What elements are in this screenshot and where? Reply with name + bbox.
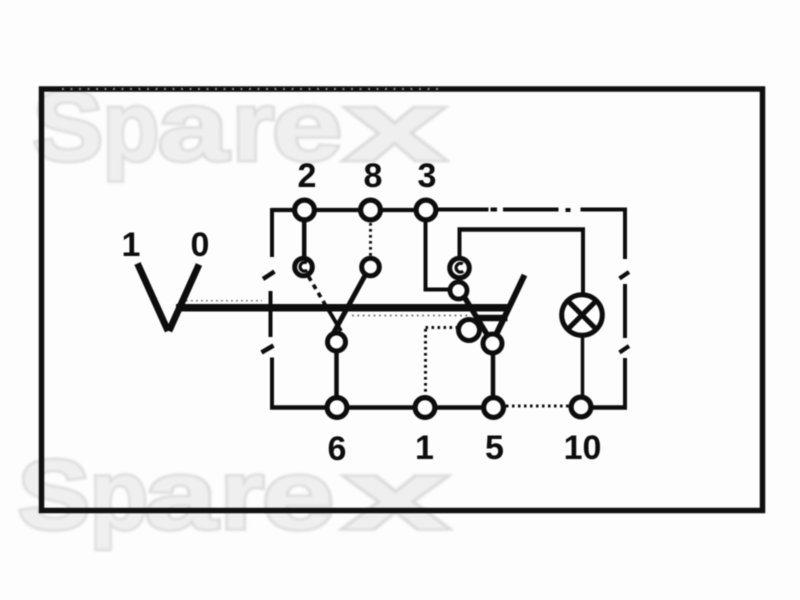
wire dotted L from terminal 1 to pivot [426, 326, 458, 329]
switch arm dashed lower solid part [327, 308, 341, 332]
terminal 1 [415, 398, 435, 418]
hook inside upper right contact [456, 263, 463, 272]
switch arm dashed (contact 2 to pivot 6) [309, 277, 328, 309]
wire bottom bus (corner through terminals 6,1,5) [270, 405, 506, 410]
svg-text:1: 1 [415, 429, 434, 467]
contact under 8 [362, 258, 380, 276]
switch arm solid (contact 8 to pivot 6) [333, 276, 365, 335]
svg-text:2: 2 [298, 157, 317, 195]
wire enclosure right dash-dot edge [623, 210, 627, 260]
dotted artifact line above bar [186, 300, 262, 302]
wire upper contact to lamp feed [458, 229, 462, 257]
svg-text:1: 1 [122, 226, 141, 264]
switch arm solid diagonal (lower contact to pivot 5) [464, 297, 490, 339]
terminal 10 [571, 397, 591, 417]
pivot 1 of switch 5 [459, 320, 480, 341]
actuator bar (thick) [176, 304, 508, 312]
svg-text:e: e [262, 440, 334, 550]
svg-text:8: 8 [364, 157, 383, 195]
svg-text:5: 5 [485, 429, 504, 467]
wire top bus (corner to terminal 3) [272, 208, 437, 212]
contact upper right stack [450, 258, 470, 278]
wire lamp feed vertical down to lamp [581, 231, 585, 294]
svg-text:0: 0 [191, 226, 210, 264]
wire enclosure top dash-dot after terminal 3 [437, 208, 489, 212]
svg-text:10: 10 [564, 429, 602, 467]
svg-text:S: S [18, 440, 90, 550]
terminal 5 [484, 398, 504, 418]
pivot 2 of switch 5 [483, 334, 502, 353]
contact under 2 [295, 258, 313, 276]
terminal 6 [327, 398, 347, 418]
svg-text:a: a [145, 440, 219, 550]
terminal 2 [295, 200, 315, 220]
wire bottom segment 10 to corner [570, 405, 627, 410]
lamp symbol [562, 295, 603, 336]
wire pivot 5 to terminal 5 [491, 352, 496, 398]
svg-text:r: r [220, 440, 264, 550]
hook inside contact under 2 [300, 262, 307, 271]
wire lamp feed horizontal [458, 227, 586, 232]
toggle lever V right stroke [169, 265, 199, 332]
contact lower right stack [450, 282, 467, 299]
wire enclosure left dash-dot edge [270, 208, 274, 257]
terminal 8 [361, 200, 381, 220]
svg-text:3: 3 [418, 157, 437, 195]
switch lever 5 [495, 275, 525, 337]
pivot of switch 6 [328, 333, 346, 351]
wire terminal 2 down to contact [302, 221, 307, 257]
dotted artifact line under bar [352, 315, 470, 317]
wire dotted terminal 8 down to contact [369, 223, 372, 257]
switch bridge segment under bar [474, 315, 508, 322]
wire lamp to terminal 10 [581, 335, 585, 397]
wire dotted bottom segment between 5 and 10 [506, 405, 570, 408]
toggle lever V left stroke [138, 264, 169, 332]
watermark Sparex bottom [18, 440, 448, 550]
border frame [42, 89, 763, 511]
svg-text:p: p [90, 440, 148, 550]
svg-text:6: 6 [328, 430, 347, 468]
wire terminal 3 elbow to contact stack [426, 222, 450, 290]
terminal 3 [416, 200, 436, 220]
wire top border watermark break [62, 88, 442, 90]
wire pivot 6 to terminal 6 [334, 350, 339, 398]
watermark Sparex top [33, 71, 445, 181]
